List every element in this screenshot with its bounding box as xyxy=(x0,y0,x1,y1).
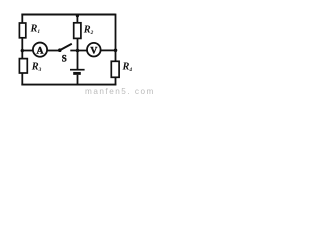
svg-text:A: A xyxy=(37,46,44,57)
svg-text:manfen5. com: manfen5. com xyxy=(85,87,154,96)
wire switch contact to battery column xyxy=(70,50,87,52)
node right middle junction xyxy=(114,49,118,53)
wire middle rail left segment to ammeter xyxy=(21,50,33,52)
wire left column upper (top corner to R1) xyxy=(21,14,23,24)
wire top rail xyxy=(21,14,115,16)
resistor R4 xyxy=(111,61,119,77)
node left middle junction xyxy=(21,49,24,52)
wire right column upper xyxy=(115,14,117,62)
voltmeter V1 circle xyxy=(87,43,101,57)
wire battery to bottom rail xyxy=(77,75,79,85)
op-amp ammeter A1 circle xyxy=(33,43,47,57)
wire R4 to bottom rail xyxy=(115,77,117,85)
wire ammeter to switch pivot xyxy=(47,50,59,52)
wire top rail to R2 xyxy=(76,15,78,24)
node battery column cross junction xyxy=(76,49,80,53)
switch S blade xyxy=(60,44,72,50)
wire R2 bottom through junction to battery xyxy=(77,38,79,69)
wire left column junction to R3 xyxy=(21,51,23,59)
wire bottom rail xyxy=(21,84,116,86)
node top rail battery column junction xyxy=(76,14,79,17)
battery short plate (-) xyxy=(73,72,81,75)
node switch pivot dot xyxy=(58,48,62,52)
wire R3 to bottom corner xyxy=(21,73,23,86)
svg-text:S: S xyxy=(62,53,67,63)
svg-text:V: V xyxy=(90,45,97,56)
wire voltmeter to right column xyxy=(101,49,116,51)
wire R1 bottom to middle junction xyxy=(21,38,23,51)
resistor R3 xyxy=(19,59,27,73)
resistor R2 xyxy=(74,23,81,39)
battery long plate (+) xyxy=(70,69,85,71)
resistor R1 xyxy=(19,23,25,38)
